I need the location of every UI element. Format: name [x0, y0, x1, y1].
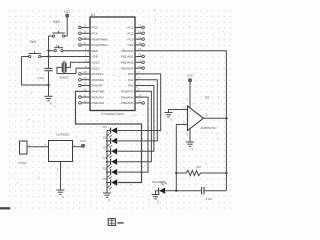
svg-text:VCC: VCC: [64, 10, 71, 14]
svg-text:PB5/AN5: PB5/AN5: [121, 101, 134, 105]
wire D3 cathode to bus: [107, 150, 111, 152]
wire photodiode to ground: [156, 190, 159, 192]
wire D2 cathode to bus: [107, 140, 111, 142]
power port VCC (op-amp): [187, 74, 194, 82]
pin 24 PA6/SDA (left): [79, 76, 104, 82]
svg-text:PD0/PWM0: PD0/PWM0: [92, 37, 108, 41]
wire PA2 to LED D3: [118, 86, 154, 152]
svg-text:2M: 2M: [197, 165, 202, 169]
pin 23 PA5/INT (left): [79, 82, 103, 88]
svg-text:PC4: PC4: [92, 32, 98, 36]
wire outer loop vertical: [21, 57, 23, 86]
pin 12 PC1 (right): [128, 30, 145, 36]
scan artifact dash (bottom left): [0, 207, 10, 209]
svg-text:VDD: VDD: [92, 55, 99, 59]
op-amp U3 AD8551: [188, 96, 218, 131]
svg-text:PA7/SCL: PA7/SCL: [92, 72, 104, 76]
svg-text:VCC: VCC: [187, 74, 194, 78]
pin 18 PB1/AN1 (right): [121, 53, 144, 59]
pin 20 PB6/AN6 (left): [79, 99, 105, 105]
LED D2: [103, 135, 117, 148]
pin 14 PC3 (left): [79, 24, 98, 30]
ground (LED bus): [103, 193, 111, 202]
ground (photodiode): [152, 195, 160, 204]
svg-text:PB0/AN0: PB0/AN0: [121, 49, 134, 53]
pin 4 wire (V-): [187, 129, 191, 142]
LED D5: [103, 167, 117, 180]
resistor R1 2M: [176, 165, 226, 175]
pin 27 PB5/AN5 (right): [121, 99, 144, 105]
wire PA0 to LED D1: [118, 74, 161, 131]
svg-text:PC2: PC2: [128, 26, 134, 30]
svg-text:PA0: PA0: [128, 72, 134, 76]
LED D6: [103, 177, 117, 190]
wire regulator to ground: [57, 162, 61, 191]
pin 3 wire (+in): [169, 105, 188, 109]
wire regulator to VCC: [73, 143, 82, 147]
wire PA1 to LED D2: [118, 80, 158, 141]
pin 22 PA4/TMR (left): [84, 88, 106, 94]
node loop/cap: [47, 84, 49, 86]
wire CON1 to regulator: [27, 143, 49, 147]
svg-text:CON1: CON1: [18, 161, 27, 165]
wire PA4/TMR to LED D6 (around left): [76, 91, 142, 182]
pin 10 VSS (right): [127, 41, 144, 47]
wire pin2 node rail: [175, 125, 177, 191]
node bus D5: [106, 171, 108, 173]
wire SW1 to rail / VDD pin: [41, 56, 49, 58]
scan noise: [17, 8, 224, 199]
pin 4 OSC2 (left): [85, 64, 100, 70]
pin 8 PA3/PFD (right): [121, 88, 140, 94]
connector CON1: [18, 141, 27, 165]
wire D5 cathode to bus: [107, 171, 111, 173]
svg-text:PD1/PWM1: PD1/PWM1: [92, 43, 108, 47]
svg-text:PC0: PC0: [128, 37, 134, 41]
switch SW1: [29, 40, 41, 57]
pin 6 wire (output): [203, 114, 226, 119]
svg-text:PB1/AN1: PB1/AN1: [121, 55, 134, 59]
power port VCC (top): [64, 10, 71, 18]
wire LED cathode bus: [106, 131, 108, 194]
node bus D3: [106, 150, 108, 152]
svg-text:VSS: VSS: [127, 43, 133, 47]
svg-text:PB6/AN6: PB6/AN6: [92, 101, 105, 105]
pin 16 PD0/PWM0 (left): [79, 35, 108, 41]
svg-text:VCC: VCC: [80, 139, 87, 143]
wire rail to cap row: [225, 173, 227, 191]
svg-text:D1: D1: [103, 125, 107, 129]
caption 图一 (Figure 1): [108, 219, 123, 226]
crystal Y1 4MHZ: [60, 62, 69, 80]
wire rail to J1: [49, 50, 55, 52]
node bus D2: [106, 140, 108, 142]
node pin2/cap row: [175, 190, 177, 192]
pin 19 PB0/AN0 (right): [121, 47, 142, 53]
svg-text:PC3: PC3: [92, 26, 98, 30]
pin 7 PA2 (right): [128, 82, 140, 88]
pin 1 RES (left): [85, 47, 98, 53]
wire J1 to RES pin: [63, 50, 90, 52]
svg-text:+: +: [189, 110, 191, 114]
LED D3: [103, 146, 117, 159]
node op-amp output: [225, 117, 227, 119]
wire SW1 left to outer loop: [22, 56, 29, 58]
svg-text:4MHZ: 4MHZ: [60, 76, 69, 80]
power port VCC (regulator output): [80, 139, 87, 147]
wire photodiode to cap row: [166, 190, 177, 192]
wire SW2 to rail node: [49, 35, 53, 37]
node resistor right: [225, 172, 227, 174]
regulator U2 LM7805C: [49, 132, 73, 161]
svg-text:OSC2: OSC2: [92, 66, 101, 70]
svg-text:-: -: [189, 124, 190, 128]
pin 16 PB3/AN3 (right): [121, 64, 144, 70]
LED D1: [103, 125, 117, 138]
switch J1 (reset button): [54, 44, 63, 52]
pin 2 wire (-in): [176, 120, 187, 124]
wire outer loop bottom: [22, 84, 49, 86]
wire D4 cathode to bus: [107, 161, 111, 163]
wire crystal right to OSC1: [66, 62, 90, 67]
switch SW2: [52, 20, 64, 37]
wire VCC to SW2: [66, 17, 68, 36]
wire output rail down: [225, 118, 227, 173]
pin 15 PC4 (left): [79, 30, 98, 36]
svg-text:PA1: PA1: [128, 78, 134, 82]
capacitor C2 3.3nf: [202, 187, 213, 201]
node resistor left: [175, 172, 177, 174]
pin 13 PC2 (right): [128, 24, 145, 30]
svg-text:AD8551/SO: AD8551/SO: [200, 126, 217, 130]
svg-text:3.3nf: 3.3nf: [206, 197, 213, 201]
pin 17 PD1/PWM1 (left): [79, 41, 108, 47]
wire left rail (x=48.5): [48, 36, 50, 68]
node at VDD line: [47, 55, 49, 57]
wire PB0/AN0 to op-amp output rail: [138, 51, 226, 119]
wire cap to ground junction: [48, 71, 50, 97]
svg-text:PA2: PA2: [128, 84, 134, 88]
node bus D6: [106, 182, 108, 184]
svg-text:PB3/AN3: PB3/AN3: [121, 66, 134, 70]
wire D6 cathode to bus: [107, 182, 111, 184]
ground (reset circuit): [45, 96, 53, 105]
svg-text:U3: U3: [205, 96, 209, 100]
svg-text:SW2: SW2: [53, 20, 60, 24]
wire D1 cathode to bus: [107, 130, 111, 132]
svg-text:SW1: SW1: [30, 40, 37, 44]
wire PA3/PFD to LED D4: [118, 91, 152, 161]
svg-text:PC1: PC1: [128, 32, 134, 36]
ground (pin 4): [186, 142, 194, 151]
pin 11 PC0 (right): [128, 35, 145, 41]
svg-text:LM7805C: LM7805C: [56, 132, 70, 136]
wire crystal left to OSC2: [57, 67, 90, 73]
pin 21 PB7/AN7 (left): [79, 93, 105, 99]
pin 5 PA0 (right): [128, 70, 140, 76]
LED D4: [103, 156, 117, 169]
photodiode D7 SFH205F: [152, 180, 167, 194]
node bus D4: [106, 161, 108, 163]
pin 17 PB2/AN2 (right): [121, 59, 144, 65]
pin 25 PA7/SCL (left): [79, 70, 104, 76]
svg-text:RES: RES: [92, 49, 98, 53]
pin 7 wire (V+): [186, 82, 190, 108]
mcu U1 HT46R04: [90, 13, 135, 116]
pin 2 VDD (left): [85, 53, 99, 59]
pin 6 PA1 (right): [128, 76, 140, 82]
svg-text:PA3/PFD: PA3/PFD: [121, 90, 134, 94]
wire cap row: [176, 190, 201, 192]
pin 3 OSC1 (left): [85, 59, 100, 65]
svg-text:PB4/AN4: PB4/AN4: [121, 95, 134, 99]
svg-text:OSC1: OSC1: [92, 61, 101, 65]
node at RES line: [47, 50, 49, 52]
svg-text:PA5/INT: PA5/INT: [92, 84, 103, 88]
ground (regulator): [57, 190, 65, 199]
wire PB4/AN4 to LED D5: [118, 97, 148, 172]
svg-text:0.1uf: 0.1uf: [38, 76, 45, 80]
svg-text:U1: U1: [91, 13, 95, 17]
pin 26 PB4/AN4 (right): [121, 93, 142, 99]
capacitor C1 0.1uF: [38, 68, 53, 80]
svg-text:PB7/AN7: PB7/AN7: [92, 95, 105, 99]
svg-text:PB2/AN2: PB2/AN2: [121, 61, 134, 65]
svg-text:HT46R04-20PW: HT46R04-20PW: [101, 112, 124, 116]
svg-text:PA4/TMR: PA4/TMR: [92, 90, 106, 94]
svg-text:PA6/SDA: PA6/SDA: [92, 78, 104, 82]
ground (pin 3): [165, 110, 173, 122]
